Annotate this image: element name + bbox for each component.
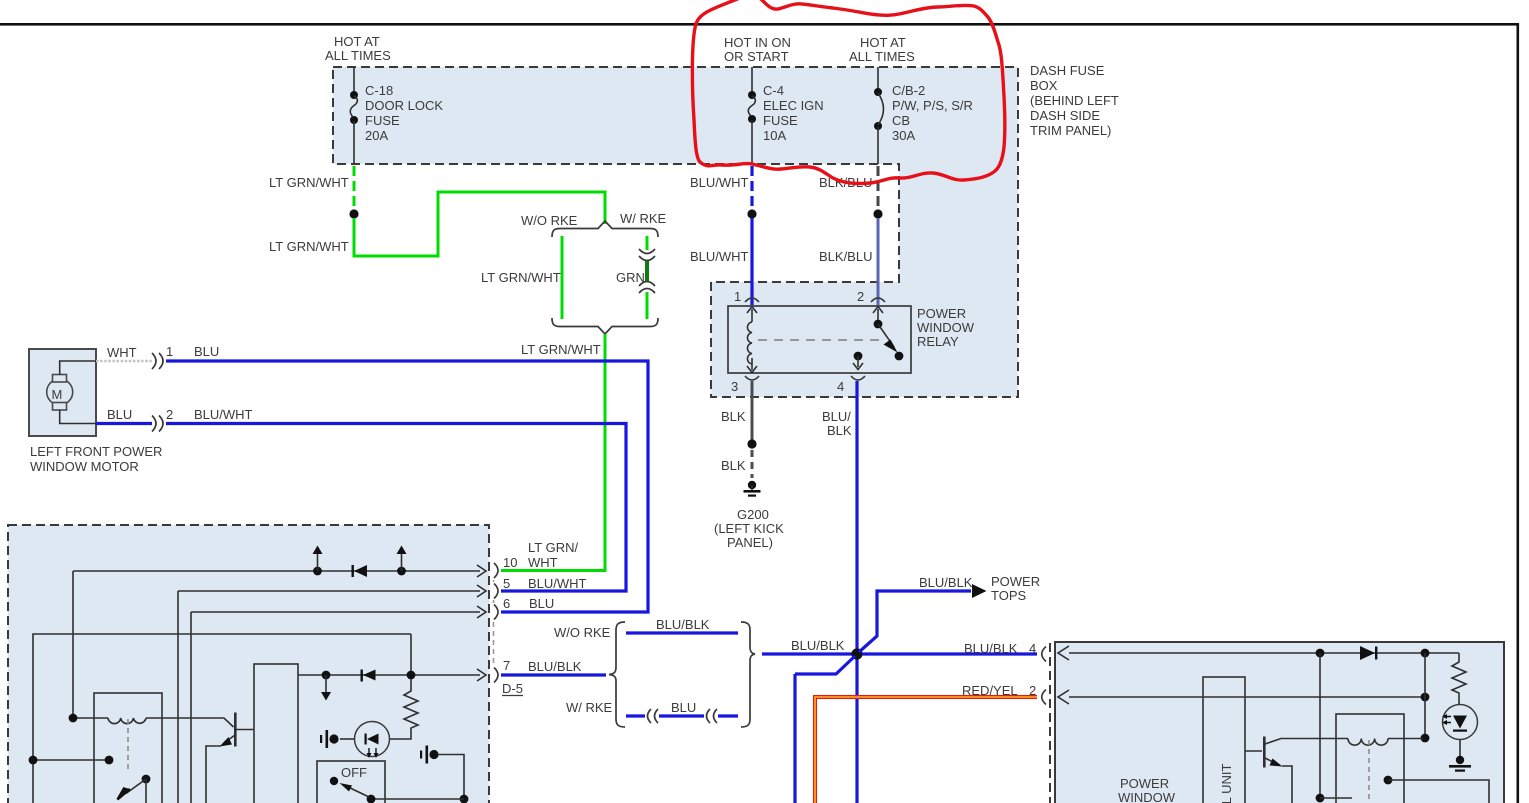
transistor Q2 collector [1265, 739, 1348, 745]
svg-text:POWER: POWER [991, 574, 1040, 589]
svg-text:DOOR LOCK: DOOR LOCK [365, 98, 443, 113]
svg-text:DASH SIDE: DASH SIDE [1030, 108, 1100, 123]
emitter wire to bottom [1282, 766, 1292, 803]
transistor Q1 base bar [234, 713, 237, 747]
relay pin 3 connector [745, 376, 759, 380]
right power window control unit box (blue fill) [1055, 642, 1504, 803]
motor connector pin 1 [152, 353, 163, 369]
svg-text:D-5: D-5 [502, 681, 523, 696]
svg-text:2: 2 [166, 407, 173, 422]
relay switch pivot node [874, 320, 883, 329]
splice node on BLU/WHT [747, 209, 756, 218]
svg-text:BLK: BLK [721, 409, 746, 424]
svg-text:POWER: POWER [917, 306, 966, 321]
svg-text:BLU/WHT: BLU/WHT [528, 576, 587, 591]
control unit rectangle [1203, 677, 1245, 803]
svg-text:RELAY: RELAY [917, 334, 959, 349]
svg-text:TOPS: TOPS [991, 588, 1026, 603]
wire BLU/BLK from pin 7 [501, 673, 606, 676]
svg-text:BLU/BLK: BLU/BLK [964, 641, 1018, 656]
LED diode symbol right unit [1453, 716, 1467, 729]
transistor Q2 base bar [1263, 737, 1266, 768]
relay pin 4 connector [851, 376, 865, 380]
pin 10 wire arrowhead [477, 565, 486, 577]
lockout relay link dashed [127, 719, 129, 770]
wire BLK/BLU dashed from C/B-2 [877, 166, 880, 209]
resistor in master switch [404, 679, 418, 737]
junction node BLU/BLK [851, 648, 862, 659]
svg-text:BLU: BLU [671, 700, 696, 715]
lockout relay coil wire from bus [73, 571, 108, 718]
switch pin 10 connector [494, 563, 498, 578]
transistor Q2 emitter with arrow [1265, 758, 1276, 764]
svg-text:BOX: BOX [1030, 78, 1058, 93]
svg-text:LEFT FRONT POWER: LEFT FRONT POWER [30, 444, 162, 459]
master switch internal wire to pin 10 [73, 570, 480, 572]
pin 2 wire arrowhead into unit [1058, 690, 1069, 704]
relay coil terminal arrow down [751, 358, 753, 370]
svg-text:ALL TIMES: ALL TIMES [325, 48, 391, 63]
svg-text:ELEC IGN: ELEC IGN [763, 98, 824, 113]
splice node on BLK/BLU [873, 209, 882, 218]
relay switch common terminal arrow up [877, 309, 879, 322]
pin 6 wire arrowhead [477, 606, 486, 618]
vertical link node wire [1424, 653, 1426, 738]
wire BLK from relay pin 3 [751, 381, 754, 441]
svg-text:3: 3 [731, 379, 738, 394]
wire branch W/O RKE (LT GRN/WHT) [561, 236, 564, 319]
svg-text:(LEFT KICK: (LEFT KICK [714, 521, 784, 536]
svg-text:20A: 20A [365, 128, 388, 143]
svg-text:2: 2 [1029, 683, 1036, 698]
svg-text:BLU/BLK: BLU/BLK [528, 659, 582, 674]
LED circle [355, 722, 390, 757]
svg-text:2: 2 [857, 289, 864, 304]
svg-text:M: M [52, 387, 63, 402]
svg-text:LT GRN/WHT: LT GRN/WHT [521, 342, 601, 357]
splice node on LT GRN/WHT [349, 209, 358, 218]
wire LT GRN/WHT down to switch pin 10 [501, 334, 605, 571]
LED circle right unit [1443, 705, 1478, 740]
LED emission arrows right unit [1446, 717, 1451, 723]
wire resistor to LED [390, 737, 411, 739]
motor brush bottom [53, 403, 67, 411]
inline connector upper on GRN wire [639, 249, 655, 261]
motor connector pin 2 [152, 416, 163, 432]
wire BLU branch right stub [718, 714, 738, 717]
node on pin 7 wire [322, 671, 331, 680]
svg-text:RED/YEL: RED/YEL [962, 683, 1018, 698]
svg-text:ALL TIMES: ALL TIMES [849, 49, 915, 64]
control IC box in master switch [254, 664, 298, 803]
arrow to POWER TOPS [972, 584, 987, 598]
bus wire drop to pin 7 node [410, 634, 412, 675]
diode on pin 4 wire [1360, 646, 1375, 660]
relay output node pin 4 [854, 352, 863, 361]
battery feed arrow up left [317, 552, 319, 571]
inline connector right on BLU branch [707, 709, 718, 723]
svg-text:10A: 10A [763, 128, 786, 143]
relay coil terminal arrow up [751, 309, 753, 322]
svg-text:WHT: WHT [107, 345, 137, 360]
svg-text:WINDOW: WINDOW [917, 320, 975, 335]
node on pin 10 wire right [397, 567, 406, 576]
circuit breaker C/B-2 symbol [874, 88, 882, 96]
svg-text:BLK/BLU: BLK/BLU [819, 249, 872, 264]
svg-text:WHT: WHT [528, 555, 558, 570]
brace close RKE merge [741, 622, 755, 727]
svg-text:POWER: POWER [1120, 776, 1169, 791]
svg-text:BLU/BLK: BLU/BLK [919, 575, 973, 590]
LED emission arrows [369, 748, 376, 754]
node on pin 2 wire [1421, 693, 1430, 702]
inline connector left on BLU branch [648, 709, 659, 723]
brace open RKE split at pin 7 [609, 622, 625, 727]
relay pin 1 connector [745, 298, 759, 302]
svg-text:WINDOW: WINDOW [1118, 790, 1176, 803]
node pin 4 wire right [1421, 649, 1430, 658]
arrow down from pin 7 node [325, 675, 327, 694]
wire BLU/BLK branch W/O RKE [626, 631, 738, 634]
wire BLU branch middle [659, 714, 704, 717]
diode on pin 7 wire [361, 670, 363, 682]
ground G200 symbol [748, 481, 756, 489]
svg-text:BLU/BLK: BLU/BLK [656, 617, 710, 632]
wire BLU/BLK junction to right unit pin 4 [862, 652, 1037, 655]
svg-text:G200: G200 [737, 507, 769, 522]
svg-text:(BEHIND LEFT: (BEHIND LEFT [1030, 93, 1119, 108]
wire branch W/ RKE upper stub [646, 236, 649, 250]
svg-text:POWER WINDOW CONTROL UNIT: POWER WINDOW CONTROL UNIT [1219, 764, 1234, 803]
relay switch arm [878, 324, 894, 347]
transistor Q1 emitter [224, 735, 235, 743]
svg-text:BLK: BLK [827, 423, 852, 438]
right relay link dashed [1368, 740, 1370, 803]
wire BLU/BLK junction branch down-left [795, 656, 855, 803]
svg-text:GRN: GRN [616, 270, 645, 285]
svg-text:5: 5 [503, 576, 510, 591]
inline connector lower on GRN wire [639, 282, 655, 294]
right unit pin 4 connector [1042, 647, 1046, 662]
wire BLU/WHT dashed from C-4 [750, 166, 753, 209]
motor brush top [53, 375, 67, 383]
node at OFF box [367, 795, 376, 803]
wire OFF box to lead [371, 798, 464, 800]
right relay coil [1348, 739, 1388, 746]
svg-text:LT GRN/: LT GRN/ [528, 540, 578, 555]
svg-text:LT GRN/WHT: LT GRN/WHT [269, 175, 349, 190]
relay switch contact node [895, 352, 904, 361]
transistor Q2 base wire [1245, 750, 1262, 752]
resistor in right unit [1452, 653, 1466, 704]
wire BLU from motor pin 1 to switch pin 6 [166, 361, 648, 612]
pin 5 wire arrowhead [477, 585, 486, 597]
node at coil feed right [1421, 734, 1430, 743]
master switch internal wire to pin 7 [298, 674, 480, 676]
coil wire to node [1388, 738, 1423, 740]
right relay contact node [1384, 776, 1393, 785]
node at OFF switch lead [460, 795, 469, 803]
left front power window motor box [29, 349, 96, 436]
pin 4 wire arrowhead into unit [1058, 646, 1069, 660]
border frame right line [1517, 23, 1520, 803]
svg-text:1: 1 [734, 289, 741, 304]
switch pin 7 connector [494, 668, 498, 683]
wire GRN segment [645, 261, 649, 281]
power window relay inner box [728, 306, 911, 373]
coil wire to transistor [146, 718, 234, 727]
svg-text:1: 1 [166, 344, 173, 359]
wire node lower stub [1320, 797, 1352, 799]
ground in right unit [1459, 740, 1461, 757]
svg-text:OFF: OFF [341, 765, 367, 780]
fuse C-4 symbol [748, 91, 756, 99]
wire LT GRN/WHT run to RKE branch [354, 192, 605, 256]
svg-text:BLU/WHT: BLU/WHT [690, 249, 749, 264]
svg-text:LT GRN/WHT: LT GRN/WHT [481, 270, 561, 285]
svg-text:BLK: BLK [721, 458, 746, 473]
svg-text:WINDOW MOTOR: WINDOW MOTOR [30, 459, 139, 474]
brace lower RKE merge [552, 318, 658, 334]
red freehand annotation loop [692, 0, 1004, 183]
svg-text:BLU/WHT: BLU/WHT [690, 175, 749, 190]
lockout relay pivot wire down [145, 779, 147, 803]
svg-text:HOT IN ON: HOT IN ON [724, 35, 791, 50]
fuse C-4 wire top [751, 67, 753, 94]
fuse C-18 symbol [350, 91, 358, 99]
wire branch W/ RKE lower stub [646, 292, 649, 319]
wire BLU branch W/ RKE left stub [626, 714, 645, 717]
svg-text:PANEL): PANEL) [727, 535, 773, 550]
OFF switch arm [346, 786, 369, 797]
border frame top line [0, 23, 1519, 26]
svg-text:10: 10 [503, 555, 517, 570]
svg-text:C/B-2: C/B-2 [892, 83, 925, 98]
svg-text:W/O RKE: W/O RKE [554, 625, 611, 640]
LED diode symbol [365, 734, 367, 745]
circuit breaker C/B-2 wire bottom [877, 127, 879, 164]
relay mechanical link dashed [758, 339, 880, 341]
right relay contact wire [1388, 780, 1489, 803]
wire LED to terminal [340, 738, 355, 740]
wire node down [1319, 653, 1321, 798]
node bus at 760 [29, 756, 38, 765]
pin 7 wire arrowhead [477, 669, 486, 681]
svg-text:W/ RKE: W/ RKE [620, 211, 667, 226]
svg-text:DASH FUSE: DASH FUSE [1030, 63, 1105, 78]
window lockout relay box [94, 693, 162, 803]
wire BLK/BLU solid to relay pin 2 [877, 218, 880, 305]
svg-text:BLU: BLU [107, 407, 132, 422]
svg-text:BLU/BLK: BLU/BLK [791, 638, 845, 653]
svg-text:FUSE: FUSE [365, 113, 400, 128]
wire BLK dashed to ground [751, 450, 754, 478]
node pin 7 wire / resistor [407, 671, 416, 680]
svg-text:LT GRN/WHT: LT GRN/WHT [269, 239, 349, 254]
right unit wire from pin 4 [1069, 652, 1459, 654]
diode on pin 10 wire [352, 565, 354, 577]
wire BLU motor lower stub [96, 422, 152, 425]
relay output terminal arrow down [857, 356, 859, 367]
svg-text:C-4: C-4 [763, 83, 784, 98]
svg-text:4: 4 [837, 379, 844, 394]
svg-text:BLU: BLU [529, 596, 554, 611]
svg-text:TRIM PANEL): TRIM PANEL) [1030, 123, 1111, 138]
node lower left [1316, 794, 1325, 803]
battery feed arrow up right [401, 552, 403, 571]
terminal contact left of LED [329, 734, 338, 743]
wire BLU/WHT solid to relay pin 1 [750, 218, 753, 305]
circuit breaker C/B-2 wire top [877, 67, 879, 91]
wire RED/YEL yellow core [815, 697, 1037, 803]
terminal contact right of LED [420, 751, 422, 759]
wire terminal to down lead [438, 755, 464, 798]
motor symbol M circle [47, 379, 73, 405]
motor internal wire bottom [60, 410, 96, 424]
OFF switch contact node [330, 777, 338, 785]
motor internal wire top [60, 361, 96, 375]
emitter wire down [206, 746, 221, 803]
wire RED/YEL red layer [815, 697, 1037, 803]
transistor Q1 base wire [236, 729, 254, 731]
master switch internal bus wire [33, 634, 411, 803]
right relay box [1336, 714, 1404, 803]
brace upper W/O RKE / W RKE split [552, 221, 658, 237]
wire BLU/BLK to power tops [859, 591, 971, 652]
lockout relay coil [108, 718, 146, 724]
master switch internal wire to pin 6 [191, 612, 480, 803]
svg-text:W/ RKE: W/ RKE [566, 700, 613, 715]
node at coil feed [69, 714, 78, 723]
relay pin 2 connector [871, 298, 885, 302]
svg-text:OR START: OR START [724, 49, 789, 64]
svg-text:6: 6 [503, 596, 510, 611]
wire BLU/BLK from relay pin 4 down [855, 381, 858, 803]
right unit dashed connector edge [1049, 643, 1051, 803]
wire WHT from motor [96, 360, 152, 363]
svg-text:HOT AT: HOT AT [860, 35, 906, 50]
switch pin 6 connector [494, 605, 498, 620]
lockout relay switch pivot [142, 775, 151, 784]
node on pin 4 wire [1316, 649, 1325, 658]
fuse C-18 wire top [353, 67, 355, 94]
relay coil [747, 322, 752, 364]
svg-text:BLU: BLU [194, 344, 219, 359]
lockout relay switch arm [126, 779, 146, 794]
right unit wire from pin 2 [1069, 696, 1423, 698]
connector strip dashes [493, 580, 495, 665]
wire BLU/WHT from motor pin 2 to switch pin 5 [166, 424, 626, 592]
left power window master switch dashed box (blue fill) [8, 525, 489, 803]
wire LT GRN/WHT dashed from C-18 [353, 166, 356, 209]
splice node on BLK [747, 439, 756, 448]
svg-text:C-18: C-18 [365, 83, 393, 98]
fuse C-4 wire bottom [751, 120, 753, 164]
lockout relay fixed contact wire [33, 759, 109, 761]
svg-text:30A: 30A [892, 128, 915, 143]
svg-text:CB: CB [892, 113, 910, 128]
svg-text:BLU/WHT: BLU/WHT [194, 407, 253, 422]
svg-text:FUSE: FUSE [763, 113, 798, 128]
svg-text:W/O RKE: W/O RKE [521, 213, 578, 228]
svg-text:7: 7 [503, 658, 510, 673]
fuse C-18 wire bottom [353, 121, 355, 164]
svg-text:4: 4 [1029, 641, 1036, 656]
svg-text:HOT AT: HOT AT [334, 34, 380, 49]
right unit pin 2 connector [1042, 690, 1046, 705]
wire BLU/BLK from merge to junction [762, 652, 852, 655]
dash fuse box + power window relay dashed enclosure (blue fill) [333, 67, 1018, 397]
svg-text:P/W, P/S, S/R: P/W, P/S, S/R [892, 98, 973, 113]
OFF switch box [317, 761, 385, 803]
svg-text:BLU/: BLU/ [822, 409, 851, 424]
lockout relay fixed contact node [105, 756, 114, 765]
switch pin 5 connector [494, 584, 498, 599]
master switch internal wire to pin 5 [178, 591, 480, 803]
node on pin 10 wire left [313, 567, 322, 576]
